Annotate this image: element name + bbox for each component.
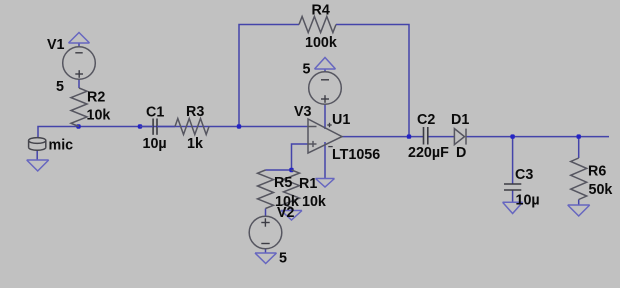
svg-text:V2: V2 bbox=[277, 205, 295, 221]
voltage source V1 bbox=[63, 47, 96, 80]
svg-text:mic: mic bbox=[49, 138, 74, 154]
svg-text:10µ: 10µ bbox=[516, 193, 540, 209]
capacitor C3 bbox=[504, 184, 521, 190]
svg-text:R2: R2 bbox=[87, 90, 105, 106]
wire R6 branch drop bbox=[578, 137, 580, 158]
wire R1 to ground stub bbox=[291, 208, 293, 211]
svg-text:R1: R1 bbox=[299, 176, 317, 192]
wire V1 ground stub bbox=[78, 43, 80, 47]
ground inverted above V1 bbox=[69, 33, 90, 44]
ground below op-amp bbox=[316, 179, 335, 188]
svg-text:V1: V1 bbox=[47, 37, 65, 53]
wire inverting input branch bbox=[292, 144, 309, 170]
resistor R1 bbox=[284, 170, 300, 208]
op-amp U1 bbox=[308, 119, 342, 153]
ground below R1 bbox=[281, 211, 302, 221]
resistor R6 bbox=[571, 158, 587, 200]
op-amp supply + marker bbox=[327, 123, 332, 147]
wire R4 left riser bbox=[239, 25, 299, 127]
wire mic to ground stub bbox=[36, 150, 38, 160]
resistor R4 bbox=[299, 17, 336, 33]
svg-text:50k: 50k bbox=[589, 182, 613, 198]
wire V2 to ground stub bbox=[265, 249, 267, 253]
mic transducer bbox=[29, 138, 46, 151]
resistor R3 bbox=[175, 119, 209, 135]
diode D1 bbox=[454, 129, 466, 145]
resistor R5 bbox=[258, 170, 274, 209]
svg-text:R5: R5 bbox=[274, 175, 292, 191]
svg-text:D: D bbox=[456, 145, 466, 161]
wire C3 branch drop bbox=[512, 137, 514, 184]
wire R5 to V2 stub bbox=[265, 209, 267, 217]
wire R4 top right segment and right riser bbox=[336, 25, 409, 137]
wire C1 leads bbox=[140, 126, 153, 128]
wire V3 top stub bbox=[324, 69, 326, 72]
svg-text:10µ: 10µ bbox=[143, 136, 167, 152]
voltage source V3 bbox=[309, 72, 342, 105]
svg-text:C2: C2 bbox=[417, 112, 435, 128]
svg-text:100k: 100k bbox=[305, 35, 337, 51]
node junction output/R4 bbox=[407, 134, 411, 138]
svg-text:1k: 1k bbox=[187, 136, 203, 152]
node junction R6 bbox=[577, 134, 581, 138]
capacitor C2 bbox=[424, 127, 428, 145]
node junction R4 riser/main bbox=[237, 124, 241, 128]
wire V3 supply to op-amp bbox=[324, 105, 326, 130]
svg-text:5: 5 bbox=[56, 79, 64, 95]
svg-text:R3: R3 bbox=[186, 104, 204, 120]
svg-text:10k: 10k bbox=[302, 194, 326, 210]
svg-text:R6: R6 bbox=[588, 164, 606, 180]
ground below C3 bbox=[503, 202, 523, 213]
ground inverted above V3 bbox=[315, 58, 336, 70]
node junction C1/main bbox=[138, 124, 142, 128]
node junction inverting network bbox=[289, 168, 293, 172]
capacitor C1 bbox=[153, 119, 157, 135]
svg-text:5: 5 bbox=[303, 62, 311, 78]
voltage source V2 bbox=[249, 216, 282, 249]
wire R6 to ground stub bbox=[578, 200, 580, 206]
ground below R6 bbox=[568, 205, 590, 216]
wire op-amp V- to ground bbox=[324, 142, 326, 179]
svg-text:V3: V3 bbox=[294, 104, 312, 120]
wire node to R5 bbox=[266, 169, 292, 171]
svg-text:R4: R4 bbox=[312, 2, 330, 18]
ground below mic bbox=[27, 160, 49, 171]
wire D1 to output end bbox=[466, 136, 609, 138]
svg-text:C1: C1 bbox=[146, 105, 164, 121]
wire main input wire bbox=[38, 127, 308, 139]
svg-text:D1: D1 bbox=[451, 112, 469, 128]
wire C3 to ground stub bbox=[512, 190, 514, 202]
wire op-amp output to C2 bbox=[342, 136, 424, 138]
node junction R2/main bbox=[76, 124, 80, 128]
svg-text:10k: 10k bbox=[87, 108, 111, 124]
svg-text:220µF: 220µF bbox=[408, 145, 449, 161]
svg-text:LT1056: LT1056 bbox=[332, 147, 380, 163]
wire C2 to D1 bbox=[428, 136, 455, 138]
ground below V2 bbox=[255, 253, 277, 264]
node junction C3 bbox=[510, 134, 514, 138]
resistor R2 bbox=[71, 88, 87, 127]
wire V1 to R2 stub bbox=[78, 80, 80, 89]
svg-text:C3: C3 bbox=[515, 167, 533, 183]
svg-text:5: 5 bbox=[279, 251, 287, 267]
svg-text:U1: U1 bbox=[332, 112, 350, 128]
